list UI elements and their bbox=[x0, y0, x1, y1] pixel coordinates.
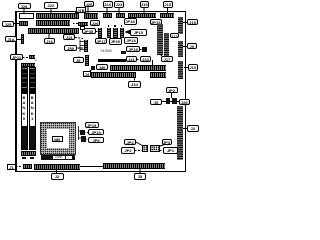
right edge comb E3 bbox=[178, 61, 184, 79]
leader from J23 bbox=[118, 8, 120, 14]
comp B bbox=[150, 145, 160, 152]
leader from J24 bbox=[106, 8, 108, 14]
connector comb A2 bbox=[84, 13, 98, 19]
comb row2 bbox=[110, 65, 166, 71]
SIMM comb ends bbox=[21, 151, 36, 156]
callout JP9 bbox=[88, 137, 104, 143]
connector comb A4 bbox=[116, 13, 125, 18]
callout J34 bbox=[128, 81, 141, 88]
callout JP10 bbox=[88, 129, 104, 135]
callout J40 bbox=[96, 64, 108, 70]
callout JP3 bbox=[162, 139, 172, 145]
callout JP15 bbox=[130, 29, 147, 36]
leader from J19 bbox=[143, 8, 145, 14]
comb JP11 target bbox=[29, 55, 35, 59]
leader from J13 bbox=[167, 8, 169, 14]
small white box end bbox=[80, 26, 85, 30]
callout J12 bbox=[170, 33, 180, 39]
board outline bbox=[15, 11, 186, 13]
leader JP15 arrow bbox=[125, 31, 130, 33]
bracket bottom cluster bbox=[79, 126, 82, 140]
callout JP1 bbox=[163, 147, 178, 154]
dark bar below CPU bbox=[41, 155, 75, 160]
comb row3b bbox=[150, 72, 166, 78]
callout JP5 bbox=[85, 122, 99, 128]
comp2 bbox=[81, 136, 86, 142]
callout J1A bbox=[5, 36, 17, 42]
bottom cluster JP4 bbox=[124, 139, 136, 145]
right edge comb E4 bbox=[177, 106, 184, 160]
leader from J1B diagonal bbox=[71, 12, 77, 19]
leader J41 ticks bbox=[152, 60, 154, 65]
bottom comb F1 bbox=[23, 164, 32, 169]
right edge comb E1 bbox=[178, 17, 184, 34]
SIMM bank0 upper bbox=[21, 67, 28, 93]
SIMM end marks bbox=[22, 157, 26, 159]
dash JP11 bbox=[23, 57, 29, 58]
dash J41-J33 bbox=[137, 59, 140, 60]
leader J2 up bbox=[56, 168, 58, 173]
CPU center label bbox=[52, 136, 63, 142]
comb B3 (J29 target) bbox=[78, 22, 88, 26]
comb C bbox=[28, 28, 79, 34]
connector comb A1 bbox=[36, 13, 79, 19]
callout J41 bbox=[126, 56, 137, 62]
dash JP19 bbox=[140, 49, 142, 50]
comp A bbox=[142, 145, 148, 152]
callout J4 bbox=[83, 71, 91, 77]
callout J10 bbox=[188, 64, 199, 71]
connector comb A3 bbox=[103, 13, 113, 18]
callout J15m bbox=[63, 34, 75, 40]
blob J40 target bbox=[91, 66, 95, 70]
SIMM bank0 label bbox=[21, 93, 28, 127]
leader JP4 diagonal bbox=[136, 142, 143, 146]
callout J16 bbox=[44, 38, 55, 44]
callout J8 bbox=[73, 57, 85, 63]
right edge comb E2 bbox=[178, 41, 184, 57]
IC 74X08 comb bbox=[84, 40, 88, 52]
callout J2B bbox=[179, 99, 191, 106]
callout JP20 bbox=[109, 38, 123, 45]
leader J15m right bbox=[75, 38, 83, 39]
keyboard connector white rect bbox=[19, 13, 34, 19]
cluster JP2 bbox=[166, 87, 178, 93]
callout J17 bbox=[161, 56, 173, 62]
jumper bars cluster bbox=[98, 28, 102, 39]
callout JP19 bbox=[126, 46, 140, 53]
leader J5 up bbox=[139, 168, 141, 173]
dash J29 bbox=[73, 23, 78, 24]
callout J33 bbox=[140, 56, 151, 62]
callout J15 right bbox=[187, 19, 198, 26]
jumper blob bbox=[121, 51, 126, 55]
dash JP35 bbox=[96, 31, 100, 32]
callout J19 bbox=[140, 1, 150, 8]
callout JP11 bbox=[10, 54, 23, 60]
callout J29 bbox=[90, 20, 100, 26]
leader from J26 bbox=[87, 7, 89, 13]
long chip bar bbox=[98, 59, 126, 62]
leader J8 right bbox=[81, 59, 84, 61]
thin line bbox=[80, 166, 103, 167]
SIMM bank1 label bbox=[29, 93, 36, 127]
left connector J1A target bbox=[21, 34, 24, 44]
text 74X08 bbox=[100, 48, 112, 53]
SIMM bank1 upper bbox=[29, 67, 36, 93]
callout JP17 bbox=[95, 38, 107, 45]
leader JP2 down bbox=[171, 93, 173, 99]
leader J34 up bbox=[134, 76, 136, 81]
callout J24 bbox=[103, 1, 113, 8]
callout J5 bottom bbox=[134, 173, 146, 180]
connector comb A6 bbox=[160, 13, 174, 18]
dash JP10 bbox=[84, 132, 88, 133]
callout J1B on edge bbox=[76, 7, 86, 13]
leader JP3 diagonal bbox=[157, 144, 166, 147]
jumper (JP19 target) bbox=[142, 47, 147, 52]
callout JP16 bbox=[150, 19, 163, 25]
bracket for 74X08 chip bbox=[80, 40, 84, 53]
callout J3 bbox=[187, 125, 199, 132]
white label in bar bbox=[53, 156, 65, 160]
callout JP2b bbox=[121, 147, 135, 154]
callout J1 bbox=[7, 164, 16, 170]
callout J25 left bbox=[2, 21, 14, 27]
SIMM bank0 lower bbox=[21, 126, 28, 150]
SIMM bank1 lower bbox=[29, 126, 36, 150]
callout JS9 bbox=[64, 45, 77, 51]
comb row3a bbox=[91, 72, 136, 78]
SIMM top strip bbox=[21, 63, 35, 67]
right vertical comb D1 bbox=[157, 24, 164, 55]
leader from J28 bbox=[23, 9, 25, 14]
callout J26 bbox=[84, 1, 94, 8]
IC comb V2 bbox=[85, 55, 89, 66]
comb B2 bbox=[36, 20, 71, 26]
callout JP14 bbox=[124, 37, 138, 44]
leader J4 diagonal up right bbox=[90, 67, 95, 72]
callout J2 bottom bbox=[51, 173, 64, 180]
callout J9 bbox=[187, 43, 198, 50]
CPU socket inner bbox=[47, 129, 69, 148]
leader J16 up bbox=[48, 33, 50, 38]
comp JP2 target bbox=[163, 101, 179, 102]
callout J23 bbox=[114, 1, 124, 8]
leader JS9 right bbox=[78, 47, 84, 49]
callout JP18 bbox=[124, 18, 137, 25]
callout J28 bbox=[18, 3, 31, 10]
comp1 bbox=[80, 130, 85, 135]
leader J17 diagonal bbox=[158, 52, 162, 56]
leader J25 bbox=[14, 23, 19, 24]
callout J27 bbox=[44, 2, 59, 9]
callout J13 bbox=[163, 1, 174, 8]
connector comb A5 bbox=[128, 13, 156, 18]
bottom comb F2 bbox=[34, 164, 80, 170]
right vertical comb D2 bbox=[164, 33, 170, 57]
leader from J27 bbox=[50, 9, 52, 13]
callout JP35 bbox=[82, 28, 96, 34]
callout J6 bbox=[150, 99, 162, 106]
comb B1 (J25 target) bbox=[19, 21, 28, 26]
bracket for V2 bbox=[79, 57, 82, 61]
bottom comb F3 bbox=[103, 163, 165, 170]
CPU socket pin grid bbox=[40, 122, 76, 155]
svg leader lines layer bbox=[0, 0, 200, 182]
